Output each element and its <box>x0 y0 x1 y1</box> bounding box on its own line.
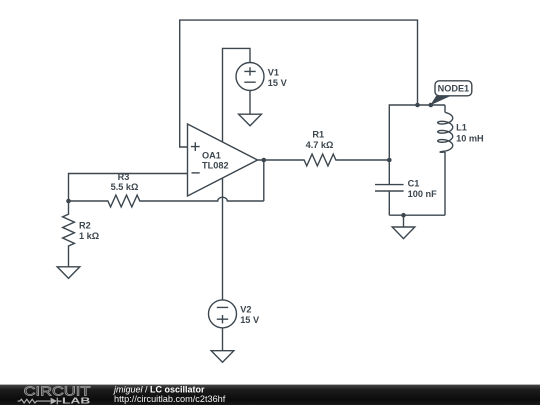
svg-text:15 V: 15 V <box>268 78 288 88</box>
inductor L1 wires <box>444 105 446 215</box>
logo resistor zigzag <box>18 399 51 403</box>
voltage source V1 <box>236 63 264 91</box>
op-amp - input pin marker <box>192 172 200 174</box>
svg-text:100 nF: 100 nF <box>408 189 437 199</box>
svg-text:R2: R2 <box>79 221 91 231</box>
node junction dot left <box>66 199 71 204</box>
wire op-amp V- supply pin to V2 <box>222 178 224 300</box>
wire V2 to ground <box>222 328 224 351</box>
wire tank to ground <box>403 215 405 227</box>
wire - input to left junction <box>69 174 188 202</box>
capacitor C1 plates <box>375 185 404 191</box>
svg-text:TL082: TL082 <box>202 160 229 170</box>
footer bar <box>0 385 540 405</box>
ground below V2 <box>211 351 234 363</box>
op-amp + input pin marker <box>191 142 200 151</box>
node junction dot top feedback <box>415 103 420 108</box>
capacitor C1 wires <box>388 160 390 215</box>
svg-text:OA1: OA1 <box>202 151 221 161</box>
op-amp OA1 <box>188 124 258 196</box>
svg-text:C1: C1 <box>408 179 420 189</box>
node NODE1 attach dot <box>429 103 434 108</box>
svg-text:V1: V1 <box>268 67 279 77</box>
node junction dot at op-amp output <box>262 158 267 163</box>
voltage source V2 <box>209 300 237 328</box>
inductor L1 coil <box>438 113 453 153</box>
svg-text:10 mH: 10 mH <box>456 134 484 144</box>
svg-text:http://circuitlab.com/c2t36hf: http://circuitlab.com/c2t36hf <box>114 394 226 404</box>
node junction dot R1 to tank <box>387 158 392 163</box>
svg-text:LAB: LAB <box>62 395 90 405</box>
svg-text:4.7 kΩ: 4.7 kΩ <box>306 140 334 150</box>
svg-text:R1: R1 <box>312 129 324 139</box>
node NODE1 flag box <box>435 81 472 96</box>
svg-text:L1: L1 <box>456 122 467 132</box>
wire output down to feedback run <box>263 160 265 201</box>
svg-text:5.5 kΩ: 5.5 kΩ <box>111 182 139 192</box>
svg-text:1 kΩ: 1 kΩ <box>79 231 99 241</box>
node NODE1 flag tail <box>430 96 449 106</box>
wire LC tank left branch top <box>389 105 445 160</box>
wire LC tank bottom <box>389 214 445 216</box>
node junction dot tank ground <box>401 213 406 218</box>
ground below tank <box>392 227 415 239</box>
ground below V1 <box>239 114 262 126</box>
svg-text:R3: R3 <box>118 172 130 182</box>
resistor R2 to ground <box>63 201 75 267</box>
wire V1 positive to op-amp V+ supply pin <box>223 48 251 142</box>
wire V1 negative to ground <box>249 91 251 115</box>
svg-text:15 V: 15 V <box>240 315 260 325</box>
wire op-amp output through R1 to tank <box>258 154 390 166</box>
ground below R2 <box>57 267 80 279</box>
svg-text:NODE1: NODE1 <box>438 84 470 94</box>
svg-text:V2: V2 <box>240 304 251 314</box>
resistor R3 (feedback) with wire and crossover hop to output <box>69 195 264 207</box>
logo diode <box>51 398 57 405</box>
wire top feedback loop from + input to NODE1 <box>180 20 418 147</box>
